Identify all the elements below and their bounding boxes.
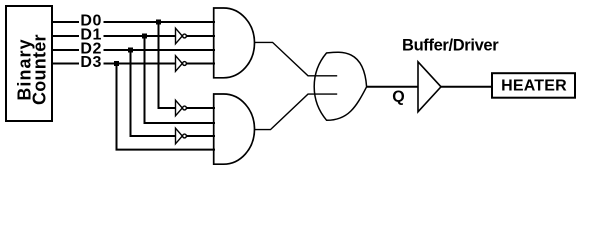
junction D2 tap [128,48,133,53]
buffer U7 Buffer/Driver [418,62,441,112]
AND gate A [214,8,255,78]
svg-text:Buffer/Driver: Buffer/Driver [402,37,499,55]
svg-text:D3: D3 [80,54,102,71]
wire D3 vertical tap [116,64,118,150]
wire D0 to AND gate A [104,21,216,23]
wire inverter U4 to AND gate B [187,107,216,109]
wire D3 to inverter U3 [104,63,177,65]
wire buffer to heater [441,86,492,88]
wire D2 tap to inverter U5 [130,135,177,137]
junction D3 tap [114,61,119,66]
svg-text:HEATER: HEATER [501,78,567,95]
wire D1 from counter [53,35,79,37]
wire D3 from counter [53,63,79,65]
wire D0 vertical tap [158,22,160,108]
wire D3 tap to AND gate B [116,149,216,151]
junction D1 tap [142,34,147,39]
wire D2 vertical tap [130,50,132,136]
wire inverter U2 to AND gate A [187,35,216,37]
wire inverter U3 to AND gate A [187,63,216,65]
inverter U4 on D0 tap [176,100,187,116]
binary counter box U1 [6,6,52,121]
wire D1 to inverter U2 [104,35,177,37]
wire AND gate B output to OR gate [254,94,337,130]
junction D0 tap [156,20,161,25]
inverter U2 on D1 [176,28,187,44]
svg-text:Q: Q [392,89,404,106]
heater box LOAD [492,73,575,98]
AND gate B [214,94,255,164]
svg-text:Counter: Counter [30,34,50,105]
wire D2 to AND gate A [104,49,216,51]
wire D0 from counter [53,21,79,23]
wire D0 tap to inverter U4 [158,107,177,109]
wire D2 from counter [53,49,79,51]
wire OR gate output node Q [366,86,418,88]
inverter U3 on D3 [176,56,187,72]
OR gate U6 [314,52,366,120]
wire inverter U5 to AND gate B [187,135,216,137]
wire AND gate A output to OR gate [254,42,337,75]
label Binary Counter [15,34,50,105]
inverter U5 on D2 tap [176,128,187,144]
wire D1 tap to AND gate B [144,122,216,124]
wire D1 vertical tap [144,36,146,123]
